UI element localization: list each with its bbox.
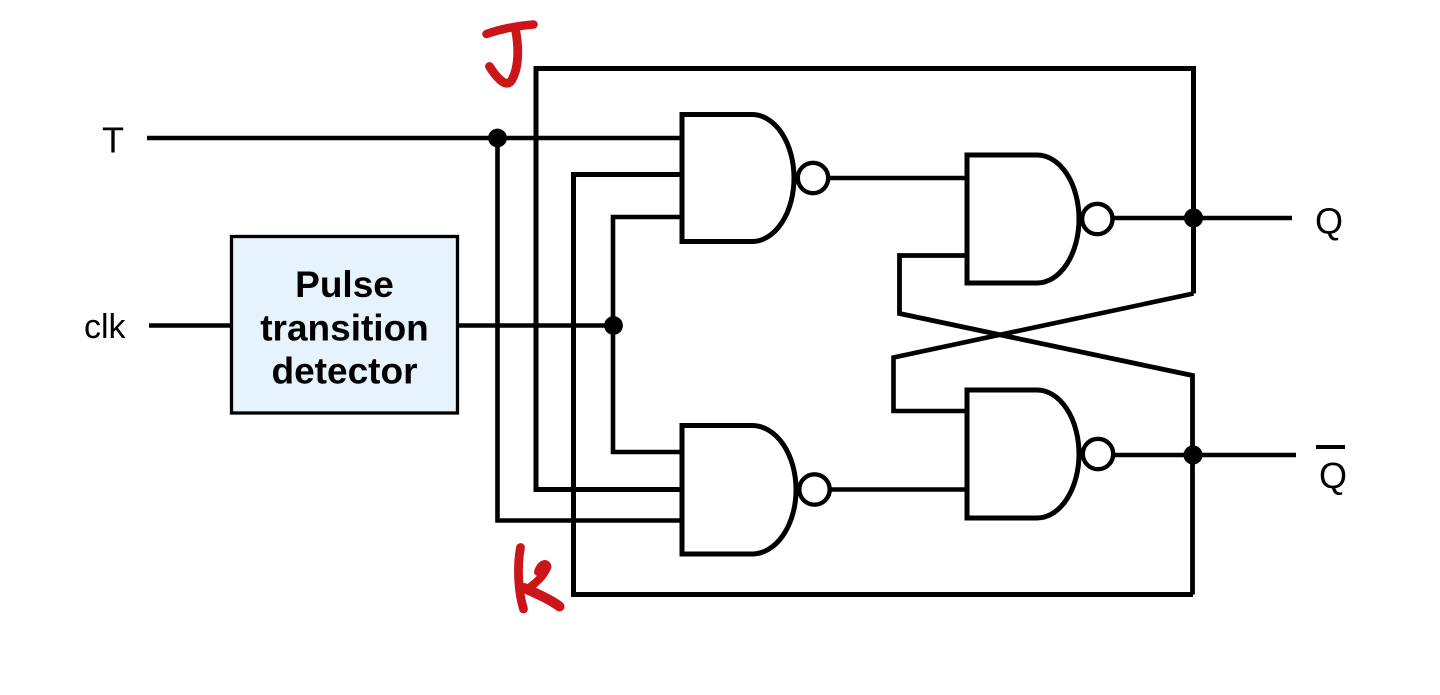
wire Q feedback top loop [536, 69, 1194, 490]
wire clk distribution vertical [613, 217, 684, 452]
NAND gate U3 bottom-left [682, 426, 796, 555]
box label: Pulse transition detector [260, 264, 429, 392]
junction T node [488, 129, 507, 148]
svg-text:transition: transition [260, 308, 429, 349]
svg-text:Q: Q [1319, 455, 1347, 496]
wire Qbar output [1114, 453, 1296, 458]
wire Q output [1114, 216, 1293, 221]
bubble U3 [799, 474, 829, 504]
NAND gate U4 bottom-right [967, 390, 1079, 518]
pulse transition detector box [232, 237, 458, 414]
wire U2 lower input cross diagonal to Qbar [900, 256, 1193, 595]
svg-text:Pulse: Pulse [295, 264, 394, 305]
junction clk node [604, 316, 623, 335]
NAND gate U2 top-right [967, 155, 1079, 283]
wire clk output to junction [458, 323, 613, 328]
svg-text:clk: clk [84, 308, 127, 346]
junction Qbar node [1183, 445, 1202, 464]
handwritten K annotation [518, 548, 523, 610]
wire Qbar feedback to upper NAND input [574, 175, 1194, 595]
svg-text:detector: detector [272, 351, 418, 392]
NAND gate U1 top-left [682, 115, 794, 242]
bubble U4 [1083, 439, 1113, 469]
wire U3 output to U4 [831, 487, 969, 492]
svg-text:Q: Q [1315, 201, 1343, 242]
bubble U1 [798, 163, 828, 193]
svg-text:T: T [102, 120, 124, 161]
Qbar overline [1316, 445, 1345, 449]
wire cross diagonal Q to G4 input [894, 294, 1194, 412]
wire T input horizontal [147, 136, 684, 141]
bubble U2 [1082, 204, 1112, 234]
wire clk input [149, 323, 231, 328]
wire T vertical to lower NAND [498, 138, 685, 521]
handwritten J annotation [487, 25, 534, 35]
wire U1 output to U2 [829, 176, 968, 181]
junction Q node [1184, 208, 1203, 227]
